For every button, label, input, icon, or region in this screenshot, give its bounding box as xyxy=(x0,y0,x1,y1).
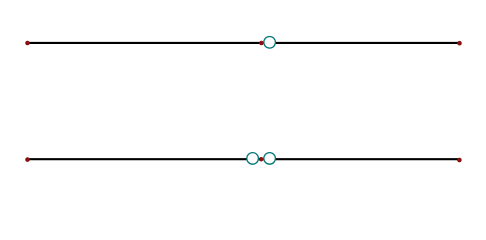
node: interior point dot between circles, lower line xyxy=(259,157,264,162)
node: right endpoint dot, upper line xyxy=(457,41,462,46)
wire: upper line segment xyxy=(28,42,460,44)
node: left endpoint dot, lower line xyxy=(25,157,30,162)
node: right endpoint dot, lower line xyxy=(457,158,462,163)
wire: lower line segment xyxy=(28,158,460,160)
node: right open circle on lower line xyxy=(264,153,276,165)
node: open circle on upper line xyxy=(264,37,276,49)
node: left open circle on lower line xyxy=(247,153,259,165)
node: left endpoint dot, upper line xyxy=(25,41,30,46)
node: interior point dot, upper line xyxy=(259,41,264,46)
